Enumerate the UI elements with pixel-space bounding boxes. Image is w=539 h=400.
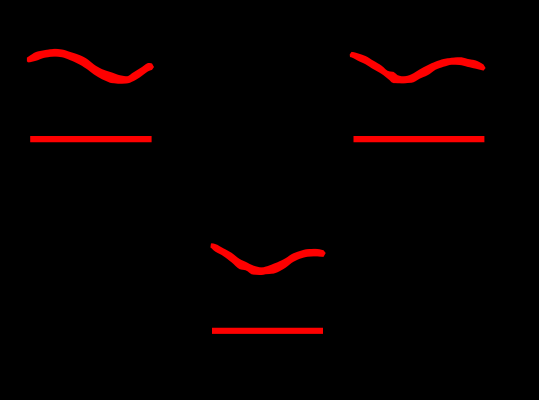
ground-state level line, top-left monomer bbox=[30, 136, 151, 142]
ground-state level line, top-right monomer bbox=[354, 136, 485, 142]
excited-state potential curve, top-right monomer bbox=[350, 52, 486, 84]
excited-state potential curve, top-left monomer bbox=[27, 49, 154, 84]
ground-state level line, bottom-centre excimer bbox=[212, 328, 323, 334]
excited-state potential curve, bottom-centre excimer bbox=[210, 243, 325, 275]
